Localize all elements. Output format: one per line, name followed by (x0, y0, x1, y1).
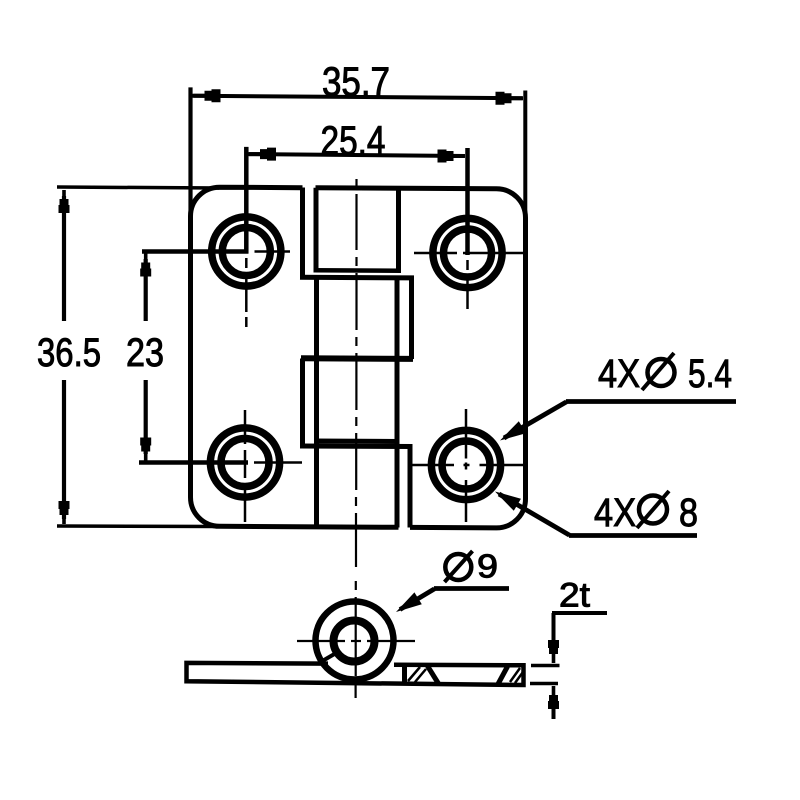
hole bottom-right (431, 430, 500, 499)
top knuckle bottom (314, 268, 402, 273)
centerline hole bottom-right horizontal (412, 464, 523, 467)
svg-text:8: 8 (679, 491, 698, 535)
knuckle inner left vertical (314, 278, 319, 528)
dimension 36.5 (57, 187, 219, 527)
lower knuckle divider upper (314, 439, 399, 445)
knuckle outer circle (bottom view) (316, 602, 394, 680)
hatch patch 2 (498, 667, 524, 686)
hatch patch 1 (408, 666, 439, 685)
svg-text:4X: 4X (598, 352, 640, 396)
dimension 23 (144, 259, 148, 454)
centerline hole top-right vertical / 25.4 extension right (465, 148, 470, 309)
svg-text:9: 9 (477, 548, 498, 585)
svg-text:5.4: 5.4 (688, 352, 732, 396)
centerline pin axis vertical (355, 179, 358, 698)
knuckle horizontal centerline (297, 640, 415, 642)
label 4X diameter 5.4 with leader (504, 402, 736, 439)
top knuckle right edge (396, 188, 401, 272)
middle knuckle divider (301, 355, 413, 362)
hinge body outline (plan view) (191, 187, 526, 528)
centerline hole top-left horizontal (142, 249, 290, 254)
centerline hole bottom-left horizontal / 23 extension bottom (139, 460, 302, 465)
label 4X diameter 8 with leader (499, 494, 697, 536)
middle knuckle top (300, 275, 414, 281)
dimension 25.4 (248, 154, 465, 156)
centerline hole top-left vertical / 25.4 extension left (244, 147, 249, 327)
middle knuckle right edge upper (409, 278, 414, 360)
centerline hole bottom-right vertical (465, 409, 468, 522)
svg-text:2t: 2t (559, 577, 591, 615)
centerline hole top-right horizontal (414, 252, 525, 255)
bottom view plate (187, 663, 524, 685)
hatch divider vertical (402, 664, 407, 685)
svg-text:23: 23 (126, 331, 164, 375)
centerline hole bottom-left vertical (244, 410, 247, 522)
svg-text:4X: 4X (594, 491, 636, 535)
svg-text:25.4: 25.4 (321, 118, 386, 164)
svg-text:36.5: 36.5 (37, 331, 101, 375)
knuckle inner circle (bottom view) (334, 621, 375, 662)
svg-text:35.7: 35.7 (322, 59, 390, 105)
dimension 35.7 (191, 87, 526, 219)
left leaf edge upper (300, 188, 305, 279)
bottom knuckle right edge (408, 446, 413, 528)
left leaf edge lower (300, 359, 305, 447)
knuckle joint lines (300, 188, 414, 528)
curl diagonal (322, 653, 338, 662)
label diameter 9 with leader (400, 589, 509, 610)
hole top-left (212, 217, 281, 286)
hole top-right (433, 218, 502, 287)
knuckle inner right vertical (395, 278, 400, 528)
lower knuckle divider lower (300, 444, 413, 450)
hole bottom-left (210, 428, 279, 497)
top knuckle left edge (314, 188, 319, 273)
